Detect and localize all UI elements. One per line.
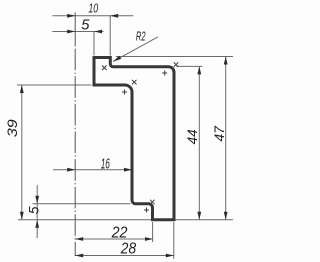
svg-text:5: 5 <box>26 206 42 214</box>
svg-text:10: 10 <box>88 1 98 16</box>
svg-text:44: 44 <box>185 129 200 144</box>
svg-text:28: 28 <box>120 241 137 258</box>
svg-text:R2: R2 <box>136 28 146 43</box>
svg-text:47: 47 <box>211 125 227 142</box>
svg-text:22: 22 <box>111 224 128 241</box>
svg-text:16: 16 <box>101 157 111 173</box>
svg-text:39: 39 <box>4 119 20 137</box>
svg-text:5: 5 <box>81 17 90 33</box>
